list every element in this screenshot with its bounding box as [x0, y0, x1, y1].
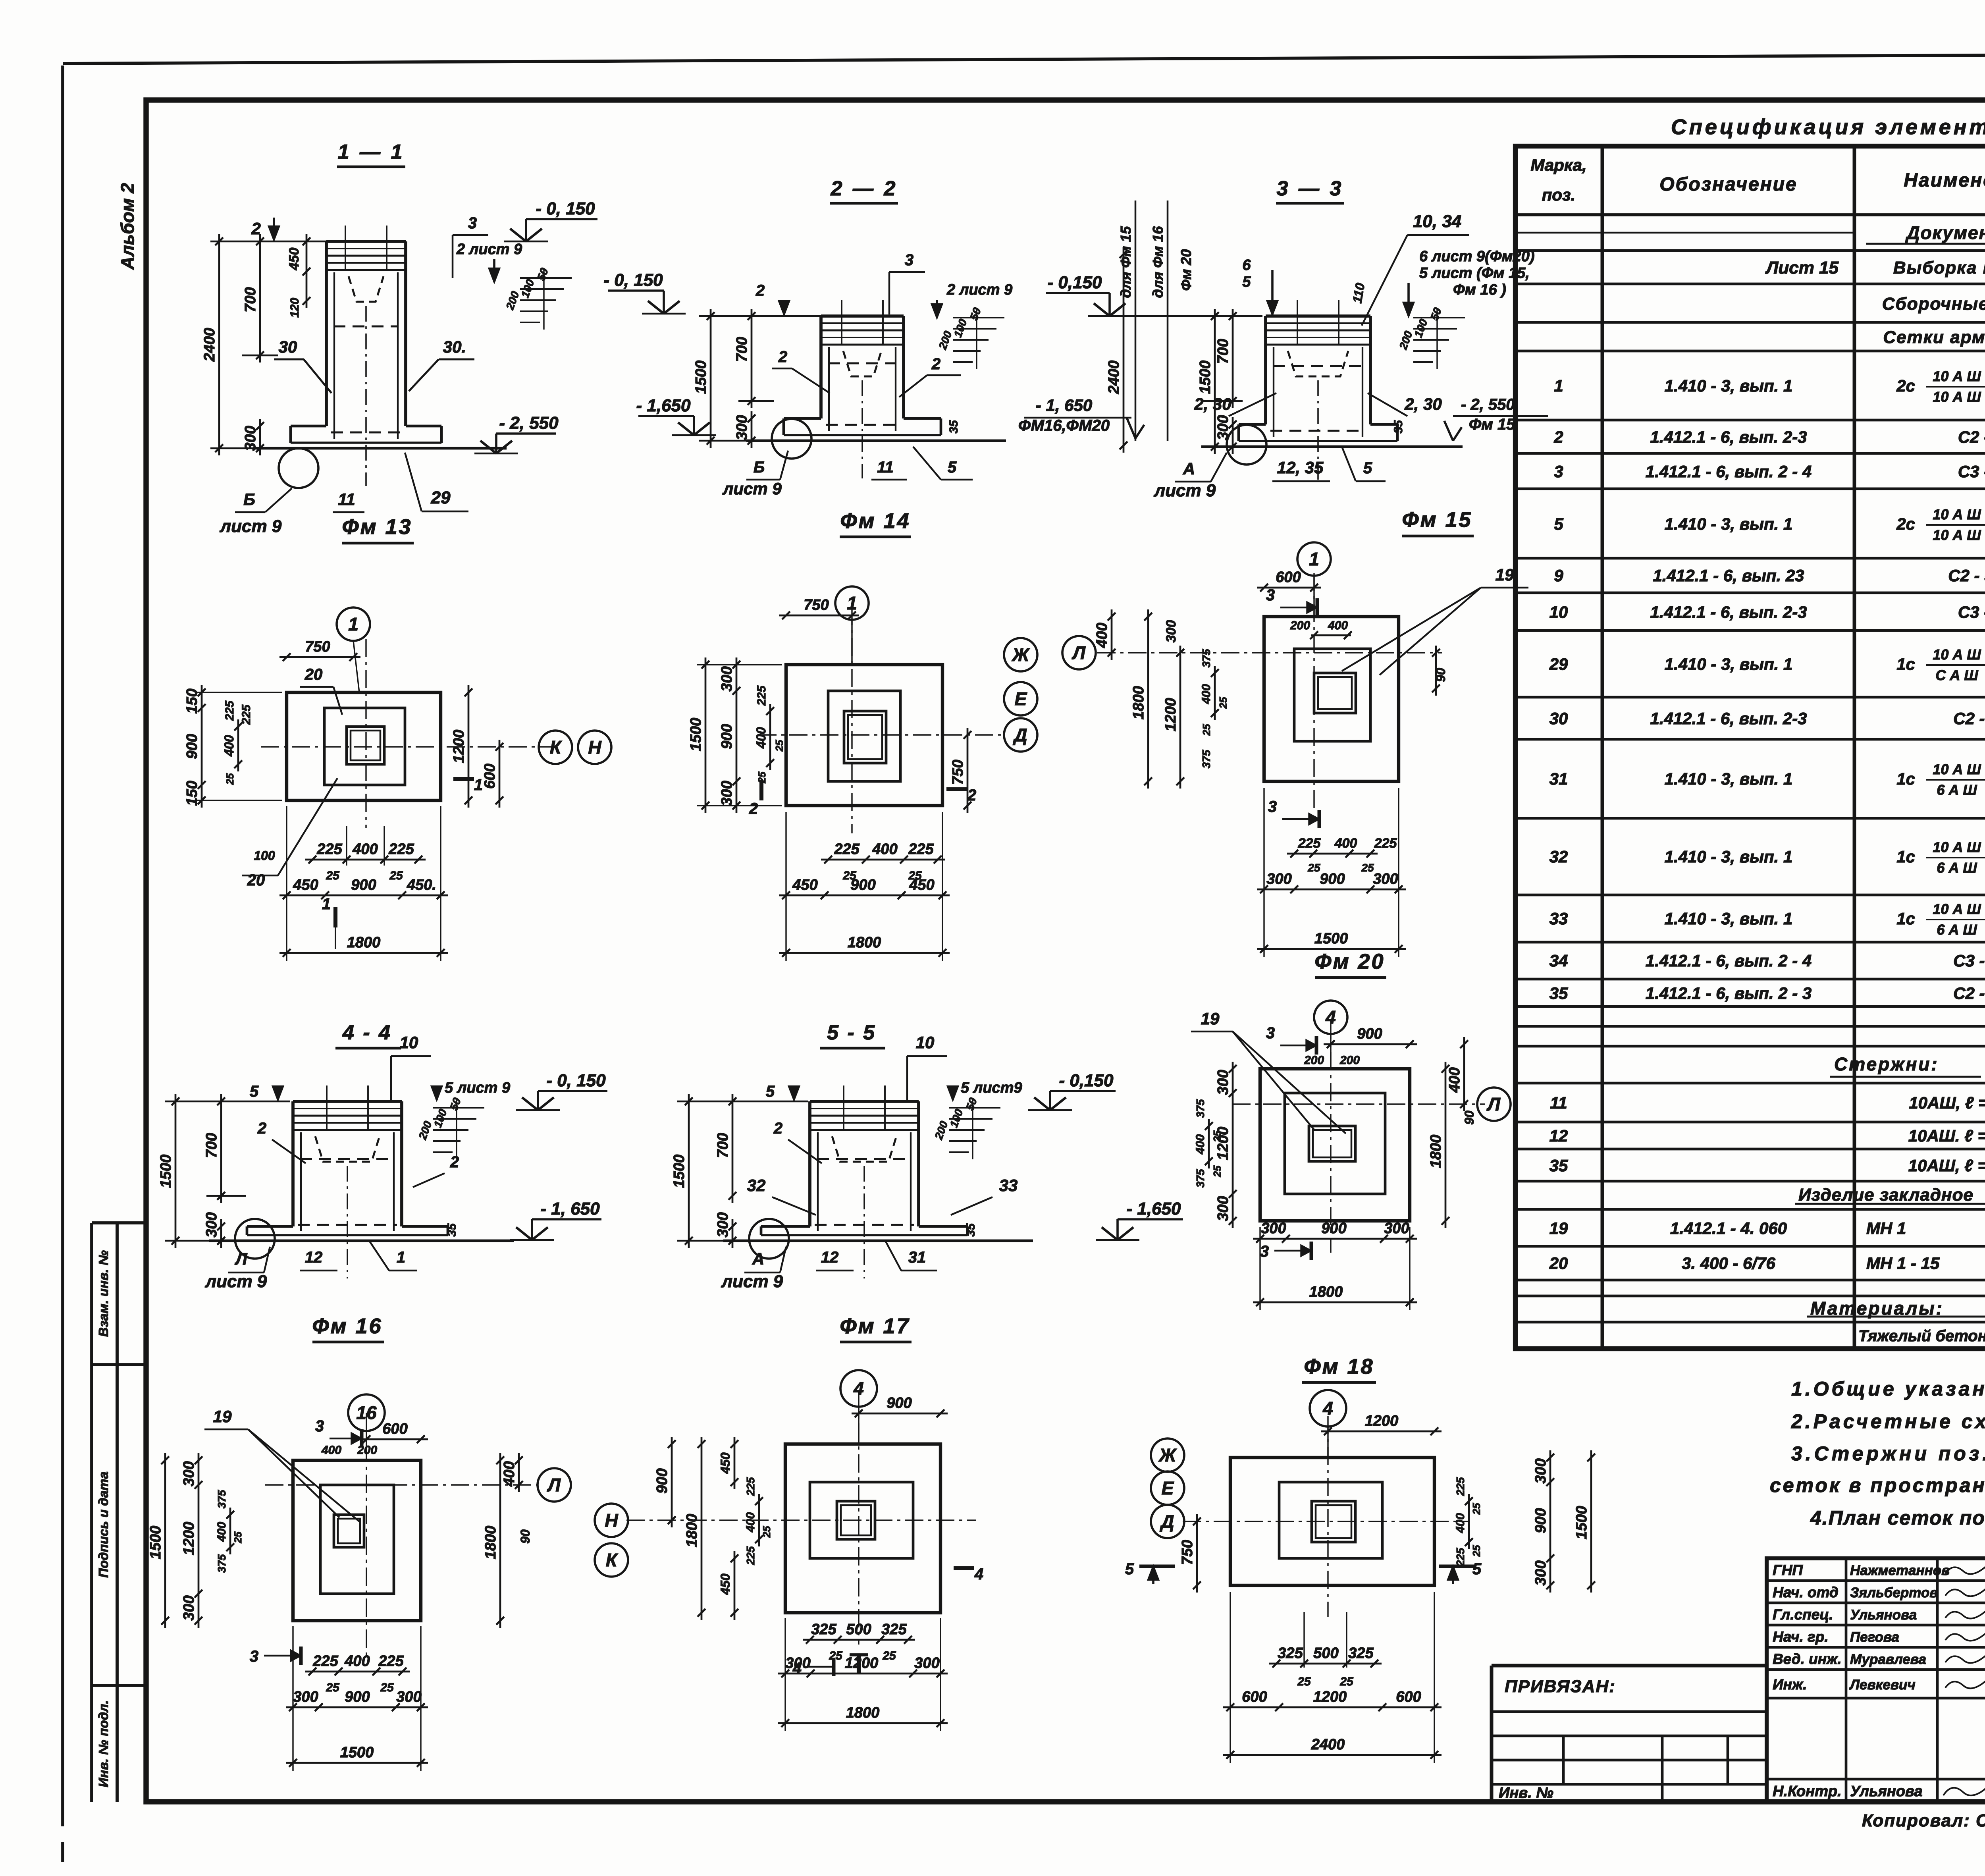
svg-text:5: 5: [250, 1083, 259, 1100]
svg-text:25: 25: [829, 1649, 843, 1662]
svg-text:1 — 1: 1 — 1: [338, 141, 405, 164]
svg-text:Фм 15: Фм 15: [1402, 508, 1472, 532]
svg-text:16: 16: [356, 1402, 377, 1423]
svg-text:225: 225: [834, 841, 860, 858]
svg-text:20: 20: [1549, 1254, 1568, 1273]
svg-text:300: 300: [1164, 620, 1179, 643]
svg-text:1200: 1200: [1365, 1413, 1399, 1429]
svg-text:Ж: Ж: [1158, 1445, 1177, 1465]
svg-text:1.412.1 - 6, вып. 2-3: 1.412.1 - 6, вып. 2-3: [1650, 428, 1807, 446]
svg-text:10, 34: 10, 34: [1413, 212, 1461, 231]
plan fm20 left micro dims: [1208, 1119, 1210, 1168]
svg-text:300: 300: [719, 781, 735, 806]
svg-text:10 А Ш: 10 А Ш: [1933, 527, 1981, 543]
svg-text:450: 450: [293, 877, 318, 893]
svg-text:5 лист 9: 5 лист 9: [445, 1080, 510, 1096]
plan fm14 left dims: [705, 657, 707, 813]
svg-text:6 А Ш: 6 А Ш: [1937, 860, 1977, 876]
svg-text:225: 225: [744, 1546, 757, 1565]
svg-text:900: 900: [345, 1689, 370, 1705]
svg-text:1с: 1с: [1896, 847, 1915, 866]
svg-text:300: 300: [1373, 871, 1398, 887]
svg-text:1.410 - 3, вып. 1: 1.410 - 3, вып. 1: [1665, 655, 1793, 673]
svg-text:ГНП: ГНП: [1773, 1562, 1803, 1578]
svg-text:30: 30: [1549, 709, 1568, 728]
plan fm18 right micro dims: [1468, 1494, 1470, 1549]
svg-text:МН 1 - 15: МН 1 - 15: [1866, 1254, 1940, 1273]
svg-text:1200: 1200: [181, 1522, 197, 1556]
spec table column lines: [1601, 146, 1604, 1349]
svg-text:Л: Л: [1072, 642, 1086, 663]
svg-text:450: 450: [287, 248, 302, 271]
plan fm16 bottom dims: [305, 1671, 410, 1673]
svg-text:600: 600: [482, 764, 498, 789]
svg-text:1200: 1200: [845, 1655, 879, 1672]
svg-text:2: 2: [749, 800, 758, 817]
svg-text:700: 700: [203, 1133, 220, 1158]
svg-text:50: 50: [967, 306, 983, 322]
svg-text:200: 200: [357, 1444, 377, 1457]
plan fm20 right dims: [1445, 1062, 1447, 1228]
svg-text:90: 90: [1434, 668, 1448, 682]
svg-text:1: 1: [474, 776, 483, 794]
svg-text:10: 10: [1549, 603, 1568, 621]
plan fm16 drawing: [293, 1460, 421, 1621]
svg-text:900: 900: [184, 734, 200, 759]
svg-text:3: 3: [1260, 1243, 1269, 1260]
svg-text:2 лист 9: 2 лист 9: [456, 241, 522, 258]
svg-text:19: 19: [1201, 1009, 1220, 1028]
svg-text:600: 600: [1242, 1689, 1267, 1705]
svg-text:1.412.1 - 6, вып. 2-3: 1.412.1 - 6, вып. 2-3: [1650, 709, 1807, 728]
svg-text:225: 225: [1454, 1548, 1467, 1567]
svg-text:- 1, 650: - 1, 650: [540, 1199, 600, 1219]
svg-text:Тяжелый бетон класса В15: Тяжелый бетон класса В15: [1858, 1327, 1985, 1345]
svg-text:9: 9: [1554, 566, 1563, 585]
svg-text:450: 450: [718, 1452, 732, 1474]
svg-text:700: 700: [1215, 339, 1231, 364]
svg-text:30.: 30.: [443, 337, 466, 356]
sheet outer border: [61, 66, 64, 1826]
svg-text:1.410 - 3, вып. 1: 1.410 - 3, вып. 1: [1665, 769, 1793, 788]
svg-text:25: 25: [1470, 1503, 1482, 1515]
svg-text:5: 5: [1242, 274, 1251, 290]
svg-text:3: 3: [1554, 462, 1563, 481]
svg-text:35: 35: [445, 1223, 459, 1237]
plan fm18 bottom dims: [1269, 1663, 1382, 1665]
plan fm18 drawing: [1230, 1458, 1434, 1585]
svg-text:Взам. инв. №: Взам. инв. №: [96, 1250, 111, 1337]
svg-text:300: 300: [1261, 1220, 1286, 1237]
svg-text:Нач. отд: Нач. отд: [1773, 1584, 1839, 1600]
svg-text:Зяльбертов: Зяльбертов: [1850, 1585, 1938, 1600]
section 4-4 left dims: [175, 1094, 177, 1248]
svg-text:1500: 1500: [158, 1155, 174, 1188]
svg-text:50: 50: [1428, 306, 1444, 322]
svg-text:3.Стержни поз. 11, 12, 35 сл: 3.Стержни поз. 11, 12, 35 служат для сбо…: [1791, 1442, 1985, 1465]
svg-text:1.410 - 3, вып. 1: 1.410 - 3, вып. 1: [1665, 515, 1793, 533]
plan fm15 drawing: [1264, 617, 1399, 781]
svg-text:5: 5: [1363, 459, 1372, 477]
svg-text:400: 400: [352, 841, 378, 858]
svg-text:5: 5: [1472, 1560, 1482, 1578]
svg-text:Фм 15: Фм 15: [1469, 416, 1515, 433]
svg-text:900: 900: [1357, 1026, 1382, 1042]
svg-text:ПРИВЯЗАН:: ПРИВЯЗАН:: [1505, 1677, 1616, 1696]
svg-text:лист 9: лист 9: [722, 479, 782, 498]
svg-text:1: 1: [1309, 549, 1319, 569]
svg-text:900: 900: [887, 1395, 912, 1411]
plan fm16 dim 600: [359, 1438, 428, 1440]
section 2-2 left dims: [663, 291, 665, 314]
plan fm14 left micro dims: [769, 704, 771, 770]
plan fm14 axis circle 1: [835, 586, 869, 620]
svg-text:25: 25: [380, 1681, 394, 1694]
svg-text:3. 400 - 6/76: 3. 400 - 6/76: [1682, 1254, 1775, 1273]
svg-text:400: 400: [1328, 619, 1348, 632]
svg-text:11: 11: [877, 459, 894, 476]
spec table row lines: [1515, 249, 1985, 252]
svg-text:900: 900: [1532, 1508, 1549, 1533]
svg-text:С2 - 57 ·: С2 - 57 ·: [1948, 566, 1985, 585]
svg-text:4: 4: [974, 1566, 983, 1583]
svg-text:300: 300: [242, 426, 259, 451]
svg-text:1.410 - 3, вып. 1: 1.410 - 3, вып. 1: [1665, 909, 1793, 928]
svg-text:1800: 1800: [347, 934, 381, 951]
svg-text:Д: Д: [1159, 1511, 1174, 1532]
svg-text:2с: 2с: [1896, 376, 1915, 395]
svg-text:6: 6: [1242, 257, 1251, 274]
svg-text:1500: 1500: [147, 1526, 164, 1560]
svg-text:400: 400: [1094, 623, 1110, 648]
section 3-3 elevation -0.150: [1108, 293, 1111, 316]
svg-text:450.: 450.: [407, 877, 436, 893]
svg-text:29: 29: [431, 488, 451, 507]
svg-text:1500: 1500: [1197, 361, 1214, 394]
plan fm17 axis circles N K: [595, 1504, 628, 1537]
svg-text:1.410 - 3, вып. 1: 1.410 - 3, вып. 1: [1665, 847, 1793, 866]
svg-text:Копировал: Сидорова: Копировал: Сидорова: [1862, 1811, 1985, 1830]
svg-text:400: 400: [1334, 836, 1357, 851]
svg-text:1: 1: [1554, 376, 1563, 395]
svg-text:400: 400: [215, 1522, 228, 1542]
svg-text:225: 225: [1298, 836, 1321, 851]
svg-text:- 0, 150: - 0, 150: [603, 270, 663, 290]
svg-text:5 - 5: 5 - 5: [827, 1021, 876, 1044]
svg-text:3: 3: [315, 1417, 324, 1435]
plan fm17 drawing: [785, 1444, 940, 1613]
svg-text:5 лист9: 5 лист9: [961, 1080, 1022, 1096]
svg-text:4: 4: [1325, 1007, 1336, 1028]
svg-text:4.План сеток подошвы Фм 18 н: 4.План сеток подошвы Фм 18 на листе 11.: [1810, 1507, 1985, 1529]
svg-text:Д: Д: [1012, 725, 1027, 745]
svg-text:325: 325: [1278, 1645, 1303, 1662]
plan fm13 cut mark 1 right: [453, 777, 474, 781]
svg-text:Подпись и дата: Подпись и дата: [96, 1471, 111, 1578]
svg-text:225: 225: [240, 704, 253, 725]
section 3-3 drawing: [1264, 316, 1267, 424]
svg-text:19: 19: [1549, 1219, 1568, 1238]
svg-text:900: 900: [850, 877, 875, 893]
svg-text:- 1,650: - 1,650: [1127, 1199, 1181, 1219]
svg-text:1800: 1800: [482, 1526, 499, 1560]
svg-text:3: 3: [1266, 586, 1275, 604]
svg-text:25: 25: [1361, 862, 1374, 874]
svg-text:5: 5: [1554, 515, 1563, 533]
privyazan box: [1492, 1664, 1767, 1668]
svg-text:400: 400: [321, 1444, 341, 1457]
svg-text:200: 200: [1304, 1054, 1324, 1067]
svg-text:2400: 2400: [1106, 361, 1122, 395]
svg-text:6 лист 9(Фм20): 6 лист 9(Фм20): [1419, 248, 1535, 265]
plan fm15 right dim 90: [1435, 646, 1437, 696]
svg-text:2: 2: [251, 219, 260, 238]
svg-text:Фм 16: Фм 16: [312, 1314, 382, 1338]
svg-text:750: 750: [804, 597, 829, 613]
section 1-1 elevation -2.550: [495, 434, 497, 453]
svg-text:20: 20: [247, 871, 265, 889]
svg-text:2: 2: [755, 282, 765, 299]
svg-text:1800: 1800: [1130, 686, 1147, 720]
svg-text:400: 400: [501, 1461, 518, 1487]
svg-text:450: 450: [909, 877, 934, 893]
svg-text:200: 200: [503, 289, 522, 312]
svg-text:25: 25: [1307, 862, 1320, 874]
plan fm17 bottom total dim: [778, 1722, 948, 1724]
svg-text:С3 - 1: С3 - 1: [1958, 462, 1985, 481]
svg-text:Фм 18: Фм 18: [1304, 1355, 1374, 1379]
svg-text:А: А: [1183, 459, 1195, 478]
svg-text:375: 375: [1200, 649, 1212, 667]
svg-text:32: 32: [1549, 847, 1568, 866]
svg-text:Наименование: Наименование: [1904, 170, 1985, 191]
svg-text:Н.Контр.: Н.Контр.: [1773, 1783, 1842, 1800]
svg-text:Е: Е: [1162, 1478, 1174, 1498]
svg-text:300: 300: [181, 1595, 197, 1620]
svg-text:300: 300: [914, 1655, 939, 1672]
svg-text:50: 50: [535, 266, 551, 282]
svg-text:3: 3: [250, 1648, 258, 1665]
svg-text:225: 225: [908, 841, 934, 858]
svg-text:25: 25: [1470, 1545, 1482, 1557]
svg-text:225: 225: [388, 841, 414, 858]
svg-text:25: 25: [232, 1531, 244, 1543]
plan fm15 axis circle 1: [1297, 542, 1331, 576]
svg-text:- 0, 150: - 0, 150: [546, 1071, 606, 1090]
svg-text:Лист 15: Лист 15: [1765, 258, 1839, 278]
svg-text:700: 700: [734, 337, 750, 362]
svg-text:1500: 1500: [693, 361, 709, 394]
svg-text:200: 200: [932, 1119, 950, 1141]
svg-text:1.412.1 - 6, вып. 2-3: 1.412.1 - 6, вып. 2-3: [1650, 603, 1807, 621]
svg-text:100: 100: [519, 278, 537, 299]
svg-text:3: 3: [468, 214, 477, 232]
svg-text:для Фм 15: для Фм 15: [1118, 226, 1134, 298]
plan fm13 dim 750: [279, 656, 360, 658]
svg-text:600: 600: [1396, 1689, 1421, 1705]
svg-text:11: 11: [338, 490, 355, 509]
svg-text:Л: Л: [1486, 1094, 1501, 1114]
svg-text:25: 25: [1201, 724, 1212, 736]
svg-text:6 А Ш: 6 А Ш: [1937, 782, 1977, 798]
svg-text:А: А: [752, 1249, 764, 1268]
svg-text:50: 50: [447, 1096, 463, 1112]
section 5-5 drawing: [808, 1101, 811, 1226]
plan fm17 cut mark 4 right: [954, 1566, 974, 1570]
svg-text:1500: 1500: [1314, 930, 1348, 947]
section 3-3 left vertical lines: [1135, 201, 1137, 441]
svg-text:1800: 1800: [848, 934, 881, 951]
svg-text:200: 200: [1339, 1054, 1360, 1067]
svg-text:25: 25: [1339, 1675, 1354, 1688]
plan fm13 bottom total dim: [279, 952, 448, 954]
signature table: [1767, 1558, 1985, 1802]
plan fm14 bottom total dim: [779, 952, 950, 954]
svg-text:2400: 2400: [1311, 1736, 1345, 1753]
svg-text:10 А Ш: 10 А Ш: [1933, 389, 1981, 405]
svg-text:700: 700: [715, 1133, 731, 1158]
svg-text:Выборка металла: Выборка металла: [1893, 258, 1985, 278]
svg-text:30: 30: [279, 337, 297, 356]
svg-text:Фм 16 ): Фм 16 ): [1453, 281, 1506, 298]
svg-text:1.412.1 - 6, вып. 2 - 4: 1.412.1 - 6, вып. 2 - 4: [1646, 951, 1812, 970]
svg-text:400: 400: [1446, 1067, 1463, 1093]
svg-text:5: 5: [1125, 1560, 1134, 1578]
svg-text:Инв. №: Инв. №: [1499, 1785, 1553, 1801]
svg-text:225: 225: [755, 685, 768, 706]
svg-text:2: 2: [450, 1153, 459, 1171]
svg-text:325: 325: [1348, 1645, 1374, 1662]
svg-text:для Фм 16: для Фм 16: [1150, 226, 1166, 298]
plan fm18 dim 750: [1196, 1514, 1198, 1593]
svg-text:300: 300: [396, 1689, 421, 1705]
svg-text:300: 300: [203, 1212, 220, 1237]
svg-text:32: 32: [747, 1176, 766, 1195]
svg-text:1500: 1500: [671, 1155, 688, 1188]
svg-text:19: 19: [213, 1407, 232, 1426]
svg-text:2.Расчетные схемы фундаменто: 2.Расчетные схемы фундаментов на листе 1…: [1791, 1410, 1985, 1433]
svg-text:Левкевич: Левкевич: [1849, 1677, 1916, 1693]
svg-text:С3 - 9: С3 - 9: [1958, 603, 1985, 621]
svg-text:900: 900: [1320, 871, 1345, 887]
svg-text:300: 300: [1384, 1220, 1409, 1237]
plan fm17 axis circle 4: [840, 1370, 877, 1407]
svg-text:300: 300: [1532, 1560, 1549, 1585]
svg-text:10: 10: [916, 1033, 935, 1052]
plan fm14 right dim 750: [967, 728, 969, 813]
svg-text:5: 5: [766, 1083, 775, 1100]
plan fm13 axis circle 1: [337, 607, 370, 641]
plan fm16 bottom total dim: [286, 1762, 428, 1764]
svg-text:31: 31: [908, 1249, 926, 1266]
plan fm20 axis circle 4: [1314, 1001, 1347, 1034]
section 2-2 drawing: [819, 316, 823, 418]
svg-text:750: 750: [305, 638, 330, 655]
svg-text:4 - 4: 4 - 4: [342, 1021, 392, 1044]
svg-text:- 1, 650: - 1, 650: [1036, 396, 1092, 415]
svg-text:Ульянова: Ульянова: [1850, 1607, 1917, 1623]
plan fm14 axis circles Zh E D: [1004, 638, 1037, 671]
section 5-5 left dims: [688, 1094, 690, 1248]
plan fm15 bottom dims: [1287, 853, 1378, 855]
svg-text:Ульянова: Ульянова: [1850, 1783, 1923, 1800]
svg-text:- 1,650: - 1,650: [636, 396, 691, 415]
section 4-4 elevation -1.650: [531, 1219, 533, 1240]
plan fm14 bottom dims: [821, 859, 945, 861]
svg-text:325: 325: [881, 1621, 907, 1638]
plan fm13 cut mark 1 bottom: [333, 907, 337, 927]
svg-text:МН 1: МН 1: [1866, 1219, 1906, 1238]
svg-text:С2 - 22: С2 - 22: [1953, 709, 1985, 728]
svg-text:1: 1: [348, 614, 358, 634]
svg-text:К: К: [550, 737, 562, 758]
svg-text:1.Общие указания на листе: 1.Общие указания на листе 4.: [1791, 1378, 1985, 1400]
svg-text:2: 2: [778, 348, 787, 366]
plan fm20 bottom total dim: [1253, 1301, 1417, 1303]
svg-text:225: 225: [312, 1653, 338, 1670]
svg-text:100: 100: [952, 317, 969, 339]
svg-text:750: 750: [950, 760, 966, 785]
svg-text:1200: 1200: [451, 730, 467, 764]
svg-text:300: 300: [734, 415, 750, 440]
svg-text:Обозначение: Обозначение: [1659, 174, 1797, 195]
svg-text:Вед. инж.: Вед. инж.: [1773, 1651, 1842, 1667]
svg-text:10 А Ш: 10 А Ш: [1933, 901, 1981, 917]
svg-text:1.412.1 - 6, вып. 2 - 4: 1.412.1 - 6, вып. 2 - 4: [1646, 462, 1812, 481]
svg-text:лист 9: лист 9: [220, 517, 282, 536]
svg-text:С2 - 1: С2 - 1: [1958, 428, 1985, 446]
svg-text:400: 400: [344, 1653, 370, 1670]
svg-text:1200: 1200: [1313, 1689, 1347, 1705]
svg-text:1800: 1800: [1428, 1135, 1444, 1168]
svg-text:Гл.спец.: Гл.спец.: [1773, 1606, 1833, 1623]
svg-text:Е: Е: [1015, 688, 1027, 709]
svg-text:лист 9: лист 9: [1154, 481, 1216, 500]
svg-text:Н: Н: [588, 737, 601, 758]
svg-text:300: 300: [1532, 1458, 1549, 1483]
plan fm16 left micro dims: [229, 1508, 231, 1554]
svg-text:Ж: Ж: [1012, 644, 1030, 665]
svg-text:225: 225: [1374, 836, 1397, 851]
section 1-1 drawing: [325, 241, 328, 426]
svg-text:600: 600: [382, 1421, 407, 1437]
svg-text:34: 34: [1549, 951, 1568, 970]
svg-text:200: 200: [1397, 329, 1415, 351]
section 5-5 elevation -0.150: [1049, 1091, 1051, 1110]
svg-text:375: 375: [216, 1490, 228, 1508]
svg-text:4: 4: [792, 1660, 802, 1677]
plan fm16 axis circle 16: [348, 1394, 385, 1431]
plan fm15 axis circle L: [1062, 636, 1096, 669]
svg-text:10 А Ш: 10 А Ш: [1933, 646, 1981, 663]
plan fm20 axis circle L: [1477, 1087, 1511, 1121]
plan fm18 axis circle 4: [1310, 1390, 1346, 1427]
svg-text:1: 1: [847, 593, 857, 613]
svg-text:12: 12: [305, 1249, 323, 1266]
svg-text:900: 900: [1321, 1220, 1346, 1237]
svg-text:10АШ. ℓ = 1400: 10АШ. ℓ = 1400: [1908, 1126, 1985, 1145]
svg-text:Фм 14: Фм 14: [840, 509, 910, 533]
svg-text:100: 100: [432, 1107, 449, 1129]
svg-text:Сборочные единицы: Сборочные единицы: [1882, 294, 1985, 314]
svg-text:375: 375: [1194, 1099, 1206, 1118]
svg-text:1800: 1800: [684, 1514, 700, 1548]
svg-text:Н: Н: [605, 1510, 618, 1531]
svg-text:225: 225: [1454, 1477, 1467, 1496]
svg-text:400: 400: [754, 727, 768, 749]
svg-text:25: 25: [1211, 1165, 1223, 1177]
svg-text:Сетки арматурные:: Сетки арматурные:: [1883, 328, 1985, 347]
